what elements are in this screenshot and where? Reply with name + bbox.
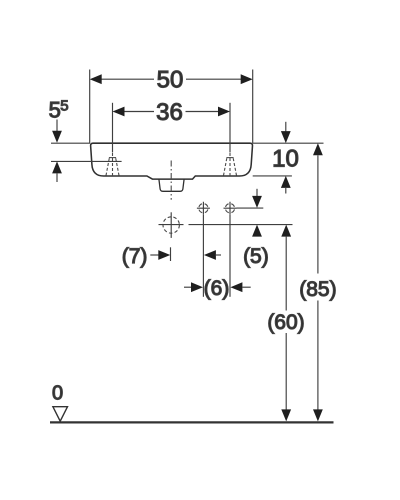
- fixing hole symbol left: [197, 202, 210, 215]
- basin centerline (dash-dot): [170, 161, 172, 200]
- dimension (7): [122, 245, 221, 268]
- right tap hole (dashed): [223, 153, 236, 176]
- svg-text:5: 5: [49, 98, 61, 123]
- svg-text:36: 36: [156, 99, 183, 126]
- floor line: [50, 421, 334, 423]
- dimension (5): [243, 189, 269, 268]
- dimension (60): [267, 225, 304, 422]
- hole extension line left vertical: [202, 215, 204, 297]
- svg-text:(5): (5): [243, 245, 269, 268]
- dimension (6): [184, 277, 251, 300]
- hole extension line right vertical: [229, 215, 231, 297]
- svg-text:(7): (7): [122, 245, 148, 268]
- fixing hole symbol right: [224, 202, 237, 215]
- dimension 36: [113, 99, 231, 153]
- dimension 5.5: [49, 98, 122, 182]
- drain trap dashed circle: [163, 212, 179, 238]
- svg-text:5: 5: [60, 98, 68, 115]
- drain outlet cup: [159, 179, 184, 191]
- dimension 10: [253, 122, 324, 194]
- extension line at hole level: [237, 207, 264, 209]
- dimension 50: [90, 67, 253, 143]
- svg-text:10: 10: [272, 146, 299, 173]
- svg-text:(6): (6): [204, 277, 230, 300]
- svg-text:(85): (85): [299, 278, 336, 301]
- svg-text:(60): (60): [267, 311, 304, 334]
- washbasin outline: [91, 143, 253, 179]
- svg-text:50: 50: [157, 67, 184, 94]
- dimension (85): [299, 143, 336, 421]
- datum zero symbol: [52, 383, 68, 422]
- extension line at trap level: [159, 224, 293, 226]
- svg-text:0: 0: [52, 383, 63, 405]
- left tap hole (dashed): [106, 153, 119, 176]
